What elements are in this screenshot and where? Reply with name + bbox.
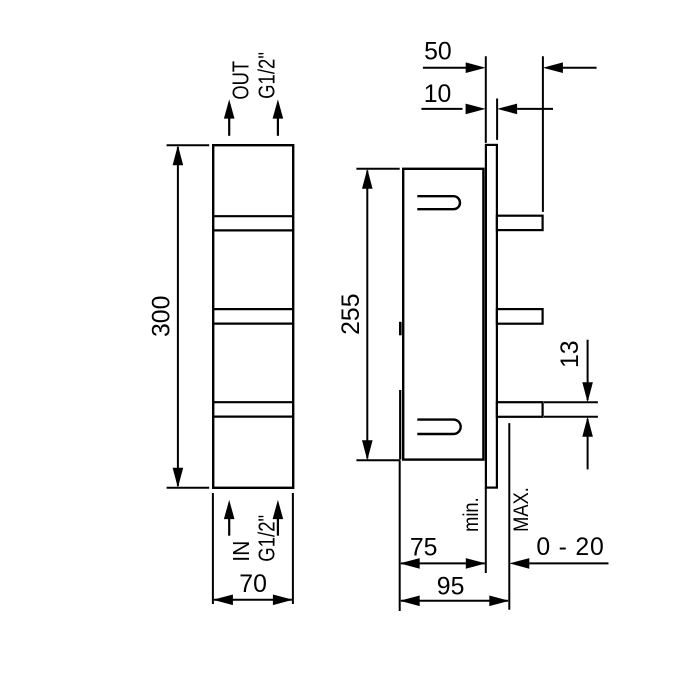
tab 3 (bottom fixing tab) — [497, 402, 543, 417]
svg-text:G1/2": G1/2" — [254, 52, 280, 99]
dimension 95 (total depth) — [401, 600, 508, 602]
IN flow arrows (bottom of front view) — [229, 512, 278, 536]
side view doubled left edge lower part — [399, 390, 401, 460]
svg-text:70: 70 — [239, 571, 267, 598]
bottom keyhole slot — [417, 420, 460, 434]
svg-text:50: 50 — [424, 39, 452, 66]
front view body (300x70 plate, left figure) — [213, 145, 293, 488]
svg-text:min.: min. — [460, 497, 484, 532]
svg-text:300: 300 — [149, 296, 176, 337]
svg-text:95: 95 — [437, 573, 465, 600]
svg-text:75: 75 — [410, 534, 438, 561]
svg-text:0 - 20: 0 - 20 — [536, 534, 604, 561]
side view left lug mark — [399, 322, 402, 336]
svg-text:OUT: OUT — [228, 61, 254, 100]
OUT flow arrows (top of front view) — [229, 112, 278, 136]
wall plate (10mm flange) — [486, 145, 497, 488]
dimension 75 (min wall depth) — [401, 562, 485, 564]
svg-text:G1/2": G1/2" — [254, 515, 280, 562]
dimension 10 — [421, 99, 553, 140]
top keyhole slot — [417, 196, 460, 209]
svg-text:MAX.: MAX. — [510, 487, 534, 532]
front view band lines (3 thin cross bands) — [213, 216, 293, 416]
tab 2 (middle fixing tab) — [497, 309, 543, 324]
side view body (right figure) — [403, 169, 483, 460]
dimension 300 (front view height) — [167, 145, 210, 488]
tab 1 (top fixing tab) — [497, 216, 543, 230]
svg-text:IN: IN — [228, 541, 254, 562]
dimension 70 (front view width) — [213, 493, 293, 604]
svg-text:255: 255 — [338, 294, 365, 335]
svg-text:10: 10 — [424, 81, 452, 108]
bottom extension lines — [400, 423, 510, 611]
dimension 13 (tab thickness) — [544, 340, 598, 470]
dimension 255 (side view body height) — [356, 169, 399, 460]
svg-text:13: 13 — [557, 340, 584, 368]
dimension 50 — [423, 56, 597, 212]
dimension 0 - 20 (max wall range) — [529, 562, 608, 564]
